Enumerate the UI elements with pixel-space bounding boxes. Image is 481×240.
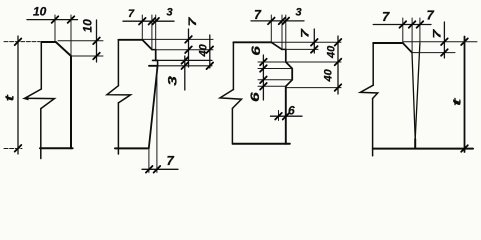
- fig4 shelf edge and extension: [412, 52, 455, 54]
- fig4 seam bottom stub: [414, 139, 416, 148]
- fig2 extension ledge bottom level right: [158, 65, 212, 67]
- fig3 left dimension line for 6 6: [262, 55, 264, 100]
- figure 2: panel edge with chamfer, ledge and tapered face: [107, 7, 213, 173]
- fig2 right dimension line 40: [209, 35, 211, 68]
- svg-text:7: 7: [427, 8, 435, 23]
- paper background: [0, 0, 481, 181]
- fig1 right dim extension upper: [58, 40, 103, 42]
- fig3 left edge upper: [232, 42, 234, 89]
- fig4 extension far seam top: [419, 18, 421, 43]
- fig3 bottom dim short extension: [278, 111, 280, 121]
- fig1 t dimension line: [17, 36, 19, 154]
- svg-text:10: 10: [81, 19, 95, 33]
- fig3 tick top dim 1: [268, 18, 275, 25]
- fig2 extension ledge top level right: [158, 59, 212, 61]
- fig2 ledge bottom edge: [149, 65, 158, 67]
- fig2 extension shelf end: [155, 15, 157, 50]
- fig3 tongue top slant: [286, 62, 292, 69]
- figure 1: panel edge with 10x10 chamfer: [3, 4, 103, 158]
- fig3 tick bottom 6 left: [275, 113, 282, 120]
- fig2 ledge face: [157, 60, 159, 65]
- fig3 tick left 6 upper bottom: [260, 65, 267, 72]
- fig4 tick top dim 1: [400, 21, 407, 28]
- fig2 extension chamfer end: [151, 15, 153, 50]
- fig4 top dimension line 7 7: [373, 24, 431, 26]
- fig3 extension tongue face bottom left: [258, 79, 292, 81]
- fig3 left edge lower: [231, 108, 233, 144]
- fig3 upper wall face: [285, 49, 287, 62]
- svg-text:t: t: [450, 97, 463, 106]
- fig1 tick t bottom: [15, 145, 22, 152]
- fig1 top dim extension at chamfer end x: [70, 15, 72, 56]
- fig2 tapered right face: [149, 66, 158, 149]
- fig2 top edge: [118, 39, 142, 41]
- fig3 tick right 40 top: [335, 39, 342, 46]
- fig4 top edge: [373, 42, 403, 44]
- fig1 left edge lower: [40, 109, 42, 159]
- fig2 chamfer: [142, 40, 152, 50]
- fig2 tick bottom dim left: [146, 166, 153, 173]
- fig1 break tip arrow: [23, 97, 29, 101]
- fig2 middle dimension line 3: [184, 56, 186, 90]
- fig3 extension tongue start right: [286, 61, 341, 63]
- fig1 tick right dim bottom: [93, 53, 100, 60]
- fig4 extension top edge level right: [404, 41, 478, 43]
- svg-text:6: 6: [288, 104, 295, 118]
- fig3 extension tongue start left: [258, 61, 286, 63]
- svg-text:7: 7: [186, 16, 198, 26]
- fig2 tick top dim 2: [149, 18, 156, 25]
- fig3 tongue bottom slant: [286, 80, 292, 87]
- fig3 bottom dimension line 6: [271, 115, 303, 117]
- fig3 tick right 7 top: [311, 39, 318, 46]
- fig4 extension chamfer end: [411, 18, 413, 53]
- svg-text:10: 10: [33, 4, 47, 18]
- fig2 bottom dimension line 7: [142, 168, 178, 170]
- fig1 right dimension line 10: [96, 20, 98, 62]
- fig2 extension top edge level right: [143, 38, 213, 40]
- fig3 top dimension line 7 and 3: [251, 20, 304, 22]
- svg-text:7: 7: [254, 8, 262, 22]
- fig3 tongue face: [291, 69, 293, 80]
- fig4 tick top dim 3: [417, 21, 424, 28]
- svg-text:3: 3: [296, 7, 302, 19]
- fig4 right edge t dimension line: [464, 37, 466, 153]
- fig3 extension chamfer end level right: [286, 48, 318, 50]
- fig1 top edge: [41, 41, 56, 43]
- fig1 chamfer: [56, 42, 71, 56]
- fig3 extension top edge level right: [272, 41, 341, 43]
- svg-text:7: 7: [382, 9, 390, 24]
- fig1 bottom edge: [40, 147, 73, 149]
- fig4 left edge lower: [372, 99, 374, 156]
- fig2 bottom dim extension from taper top: [156, 66, 158, 173]
- fig2 tick right 40 bottom: [207, 63, 214, 70]
- fig2 break mark: [107, 86, 131, 103]
- fig3 tick right 40 middle: [335, 59, 342, 66]
- svg-text:7: 7: [167, 153, 175, 168]
- fig2 tick middle 3 top: [182, 57, 189, 64]
- svg-text:t: t: [3, 94, 16, 101]
- fig2 vertical face of lip: [155, 50, 157, 61]
- fig3 tick top dim 2: [279, 18, 286, 25]
- fig3 lower wall face: [285, 86, 287, 144]
- fig2 left edge lower: [117, 103, 119, 154]
- fig4 break mark: [360, 85, 377, 98]
- fig2 shelf after chamfer: [152, 49, 156, 51]
- svg-text:6: 6: [248, 92, 262, 102]
- fig2 bottom dim extension from taper bottom: [148, 149, 150, 173]
- fig4 chamfer: [403, 43, 412, 53]
- fig1 break mark: [25, 89, 55, 109]
- fig2 right dimension line 7: [188, 29, 190, 67]
- fig3 right dimension line 7: [313, 29, 315, 53]
- fig1 right edge: [70, 56, 72, 148]
- figure 3: panel edge with chamfer and tongue: [220, 7, 341, 145]
- fig3 extension chamfer start: [270, 15, 272, 42]
- fig4 tick t bottom: [461, 145, 468, 152]
- fig1 top extension line to t dim: [4, 41, 40, 43]
- fig4 tick right 7 top: [441, 38, 448, 45]
- fig2 tick top dim 3: [152, 18, 159, 25]
- fig2 ledge top edge: [153, 59, 158, 61]
- fig4 seam near line: [412, 53, 415, 139]
- svg-text:40: 40: [198, 43, 210, 57]
- fig3 extension tongue end left: [258, 85, 286, 87]
- fig3 extension tongue face top left: [258, 68, 292, 70]
- svg-text:3: 3: [167, 7, 173, 19]
- fig3 tick bottom 6 right: [283, 113, 290, 120]
- fig3 bottom edge: [233, 143, 290, 145]
- fig3 right dimension line 40 40: [337, 36, 339, 94]
- fig3 extension tongue end right: [286, 87, 341, 89]
- fig4 bottom edge: [373, 148, 473, 150]
- fig3 top edge: [233, 41, 271, 43]
- svg-text:40: 40: [323, 68, 335, 82]
- fig3 chamfer: [271, 42, 282, 49]
- fig3 extension shelf end: [285, 15, 287, 49]
- fig3 shelf after chamfer: [282, 48, 286, 50]
- fig2 bottom edge: [115, 147, 148, 149]
- svg-text:40: 40: [326, 45, 338, 59]
- fig4 tick t top: [461, 38, 468, 45]
- fig4 seam far line: [415, 43, 420, 139]
- fig2 tick right 7 top: [185, 36, 192, 43]
- fig4 right dimension line 7: [443, 22, 445, 58]
- fig1 bottom extension line to t dim: [4, 148, 22, 150]
- fig1 tick top dim right: [68, 16, 75, 23]
- svg-text:3: 3: [166, 75, 180, 85]
- fig2 top dimension line 7 and 3: [123, 20, 174, 22]
- fig1 left edge upper: [40, 42, 42, 89]
- fig4 tick right 7 bottom: [441, 49, 448, 56]
- fig3 extension chamfer end: [281, 15, 283, 49]
- fig2 tick right 40 top: [207, 46, 214, 53]
- fig3 tick right 40 bottom: [335, 84, 342, 91]
- svg-text:7: 7: [431, 28, 443, 38]
- fig2 extension chamfer start: [141, 15, 143, 40]
- fig3 tick left 6 lower bottom: [260, 83, 267, 90]
- fig1 right dim extension lower: [72, 55, 103, 57]
- fig4 tick top dim 2: [409, 21, 416, 28]
- fig4 extension chamfer start: [402, 18, 404, 43]
- fig3 tick right 7 bottom: [311, 46, 318, 53]
- fig2 left edge upper: [117, 40, 119, 86]
- fig4 left edge upper: [372, 43, 374, 85]
- fig3 tick top dim 3: [283, 18, 290, 25]
- fig1 top dim extension at chamfer start: [54, 15, 56, 42]
- figure 4: panel with chamfered joint seam: [360, 8, 477, 156]
- fig3 tick left 6 upper top: [260, 59, 267, 66]
- fig2 tick middle 3 bottom: [182, 62, 189, 69]
- fig3 tick left 6 lower top: [260, 77, 267, 84]
- fig2 tick bottom dim right: [154, 166, 161, 173]
- svg-text:7: 7: [128, 8, 135, 20]
- svg-text:7: 7: [299, 28, 311, 38]
- svg-text:6: 6: [249, 45, 263, 55]
- fig1 tick t top: [15, 39, 22, 46]
- fig2 tick top dim 1: [139, 18, 146, 25]
- fig2 extension chamfer end level right: [156, 49, 213, 51]
- fig1 tick right dim top: [93, 38, 100, 45]
- fig1 tick top dim left: [52, 16, 59, 23]
- fig1 top dimension line 10: [27, 19, 78, 21]
- fig3 break mark: [220, 90, 242, 109]
- fig2 tick right 7 bottom: [185, 46, 192, 53]
